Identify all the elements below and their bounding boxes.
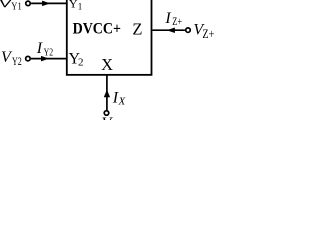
svg-text:Z: Z xyxy=(132,19,142,38)
svg-text:X: X xyxy=(101,55,113,74)
svg-text:1: 1 xyxy=(78,2,83,12)
svg-text:Z+: Z+ xyxy=(202,27,214,41)
svg-text:Y: Y xyxy=(69,0,78,11)
svg-text:I: I xyxy=(36,40,43,57)
svg-text:Y1: Y1 xyxy=(11,1,21,13)
svg-text:V: V xyxy=(102,115,114,120)
svg-text:DVCC+: DVCC+ xyxy=(73,21,121,38)
svg-text:I: I xyxy=(164,10,171,27)
svg-text:Z+: Z+ xyxy=(172,16,182,28)
svg-text:Y2: Y2 xyxy=(12,54,22,68)
svg-text:2: 2 xyxy=(78,57,84,69)
svg-text:Y2: Y2 xyxy=(44,47,54,59)
svg-text:X: X xyxy=(118,96,127,108)
